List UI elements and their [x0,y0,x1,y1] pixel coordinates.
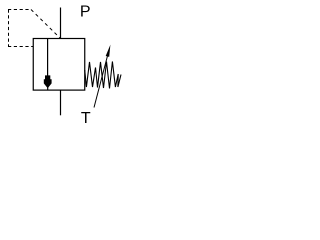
pilot line (dashed) left segment [8,10,10,47]
flow arrow head [44,75,52,88]
svg-text:P: P [80,4,91,21]
wire port T line [60,91,62,116]
flow arrow tip line to bottom edge [47,86,49,91]
pilot line (dashed) top segment [8,9,31,11]
pilot line (dashed) diagonal segment to P junction [31,10,61,39]
adjustment arrow shaft [94,52,109,108]
spring zigzag [85,62,121,89]
valve envelope box [33,39,85,91]
pilot line (dashed) bottom segment [8,46,33,48]
svg-text:T: T [81,110,91,127]
wire port P line [60,8,62,40]
flow arrow shaft [47,39,49,76]
adjustment arrow head [106,45,111,57]
